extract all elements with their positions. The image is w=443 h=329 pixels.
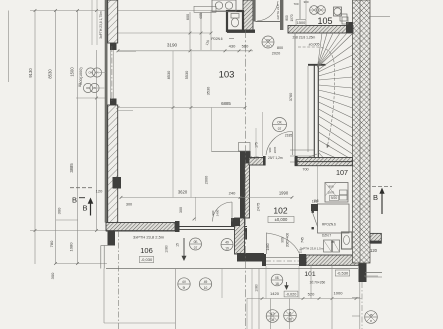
- svg-text:18: 18: [275, 282, 279, 286]
- svg-text:8530: 8530: [167, 71, 171, 79]
- svg-text:OK: OK: [266, 38, 270, 42]
- svg-text:2x6PI: 2x6PI: [251, 156, 260, 160]
- svg-text:±0,000: ±0,000: [275, 217, 288, 222]
- svg-text:105: 105: [317, 16, 332, 26]
- svg-text:DZN.7: DZN.7: [322, 234, 331, 238]
- svg-text:3190: 3190: [167, 43, 178, 48]
- svg-text:900: 900: [281, 237, 285, 243]
- svg-text:700: 700: [293, 2, 298, 6]
- svg-text:1970: 1970: [328, 191, 335, 195]
- svg-text:RPOZN.6: RPOZN.6: [322, 223, 336, 227]
- svg-text:07: 07: [194, 246, 198, 250]
- svg-text:3620: 3620: [178, 190, 188, 195]
- svg-text:900: 900: [268, 147, 272, 152]
- svg-text:1000: 1000: [334, 291, 344, 296]
- svg-text:600: 600: [186, 14, 190, 20]
- svg-text:2x8 23,8 1,25m: 2x8 23,8 1,25m: [293, 36, 316, 40]
- svg-text:800: 800: [277, 46, 283, 50]
- svg-text:800: 800: [329, 185, 334, 189]
- svg-text:3xPTH 23,8 1,5m: 3xPTH 23,8 1,5m: [300, 247, 324, 251]
- svg-text:175: 175: [255, 142, 259, 148]
- svg-text:07: 07: [278, 127, 282, 131]
- svg-text:03: 03: [266, 44, 270, 48]
- svg-text:300: 300: [303, 0, 308, 4]
- svg-text:05: 05: [93, 86, 97, 90]
- svg-text:103: 103: [219, 70, 235, 81]
- svg-text:1420: 1420: [270, 291, 280, 296]
- svg-text:OK: OK: [88, 71, 92, 75]
- svg-text:1080: 1080: [165, 245, 169, 253]
- svg-text:1500: 1500: [70, 67, 75, 77]
- svg-text:115: 115: [313, 199, 318, 203]
- svg-text:9130: 9130: [28, 68, 33, 78]
- svg-text:49: 49: [225, 241, 229, 245]
- svg-text:9/20: 9/20: [331, 196, 338, 200]
- svg-text:B: B: [373, 193, 378, 202]
- svg-text:300: 300: [57, 207, 62, 214]
- svg-text:3760: 3760: [289, 93, 293, 101]
- svg-text:B: B: [82, 204, 87, 213]
- svg-text:10: 10: [204, 286, 208, 290]
- svg-text:49: 49: [204, 280, 208, 284]
- svg-text:PD2N.6: PD2N.6: [211, 37, 222, 41]
- svg-text:115: 115: [299, 248, 303, 253]
- svg-text:-0,020: -0,020: [286, 292, 297, 296]
- svg-text:106: 106: [140, 246, 153, 255]
- svg-text:B: B: [72, 196, 77, 205]
- svg-text:900: 900: [211, 210, 215, 215]
- svg-text:08: 08: [288, 318, 292, 322]
- svg-text:405: 405: [199, 13, 203, 19]
- svg-text:800: 800: [285, 15, 289, 21]
- svg-text:5530: 5530: [185, 71, 189, 79]
- svg-text:2475: 2475: [257, 203, 261, 211]
- svg-text:3xPTH 23,8 1,75m: 3xPTH 23,8 1,75m: [99, 11, 103, 39]
- svg-text:107: 107: [336, 168, 348, 177]
- svg-text:300: 300: [179, 207, 183, 213]
- svg-text:1500: 1500: [297, 21, 305, 25]
- svg-text:560: 560: [242, 44, 249, 49]
- svg-text:300: 300: [50, 272, 55, 279]
- svg-text:780: 780: [49, 240, 54, 247]
- svg-text:745: 745: [301, 237, 305, 243]
- svg-text:102: 102: [273, 206, 287, 216]
- svg-text:2185: 2185: [285, 134, 293, 138]
- svg-text:3xPTH 23,8 2,5m: 3xPTH 23,8 2,5m: [133, 235, 165, 240]
- svg-text:300: 300: [126, 203, 132, 207]
- svg-text:2065: 2065: [273, 146, 277, 153]
- svg-text:1990: 1990: [279, 191, 289, 196]
- svg-text:240: 240: [229, 190, 236, 195]
- svg-text:700: 700: [302, 168, 308, 172]
- svg-text:2xPTH 23,8: 2xPTH 23,8: [276, 4, 280, 20]
- svg-text:120: 120: [96, 189, 103, 194]
- svg-text:2000: 2000: [205, 176, 209, 184]
- svg-text:08: 08: [271, 318, 275, 322]
- svg-text:9!: 9!: [183, 286, 186, 290]
- svg-text:-0,030: -0,030: [141, 257, 153, 262]
- svg-text:25/7 1,2m: 25/7 1,2m: [268, 156, 283, 160]
- svg-text:1080: 1080: [68, 242, 73, 252]
- svg-text:OK: OK: [86, 86, 90, 90]
- svg-text:101: 101: [304, 271, 316, 278]
- svg-text:2400: 2400: [216, 209, 220, 216]
- svg-text:80: 80: [332, 240, 336, 244]
- svg-text:1080: 1080: [255, 284, 259, 292]
- svg-text:0Б: 0Б: [194, 240, 198, 244]
- svg-text:800(1000): 800(1000): [79, 67, 83, 85]
- svg-text:-0,530: -0,530: [337, 270, 349, 275]
- svg-text:430: 430: [229, 44, 236, 49]
- svg-text:80: 80: [78, 83, 82, 87]
- svg-text:04: 04: [95, 71, 99, 75]
- svg-text:6885: 6885: [221, 101, 231, 106]
- svg-text:2020: 2020: [272, 52, 280, 56]
- svg-text:1б:70×260: 1б:70×260: [310, 281, 326, 285]
- svg-text:15: 15: [176, 243, 180, 247]
- svg-text:520: 520: [308, 292, 315, 297]
- svg-text:4Э: 4Э: [270, 312, 275, 316]
- svg-text:3530: 3530: [207, 87, 211, 95]
- svg-text:±0,005: ±0,005: [309, 43, 320, 47]
- svg-text:3885: 3885: [69, 163, 74, 173]
- svg-text:0Б: 0Б: [275, 276, 279, 280]
- svg-text:2065×400: 2065×400: [286, 233, 290, 247]
- svg-text:19: 19: [225, 246, 229, 250]
- svg-text:45: 45: [369, 313, 373, 317]
- svg-text:1460: 1460: [266, 243, 270, 250]
- svg-text:8530: 8530: [48, 69, 53, 79]
- svg-text:1970: 1970: [290, 14, 294, 21]
- svg-text:120: 120: [370, 248, 378, 253]
